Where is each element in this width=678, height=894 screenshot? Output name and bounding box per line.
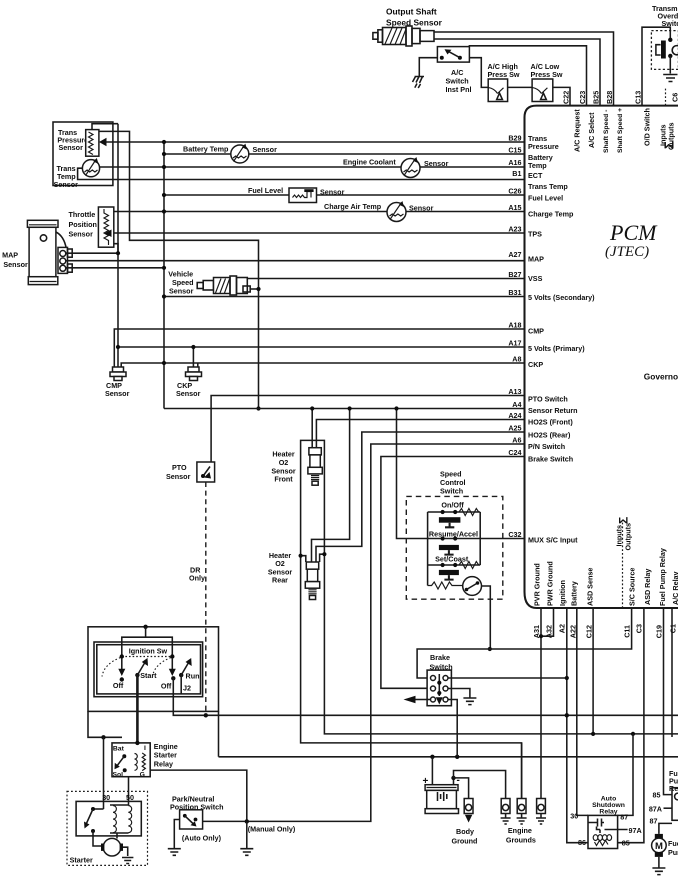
svg-text:Fuel Level: Fuel Level xyxy=(248,186,283,195)
wire: CKP 5V stub xyxy=(192,347,194,368)
speed control switch label xyxy=(440,470,466,496)
trans temp sensor xyxy=(82,158,99,177)
ground brake switch xyxy=(463,698,476,705)
engine starter relay label xyxy=(154,742,178,769)
ignition left off arrow xyxy=(118,658,125,682)
wire: O2 rear signal to sensor return xyxy=(312,409,350,563)
svg-text:97A: 97A xyxy=(629,826,642,835)
wire C12 ASD sense xyxy=(592,608,594,734)
svg-text:On/Off: On/Off xyxy=(441,501,464,510)
trans sensors outer box xyxy=(53,122,113,186)
svg-text:5 Volts (Primary): 5 Volts (Primary) xyxy=(528,344,585,353)
secondary bus from pressure sensor xyxy=(99,131,259,408)
PCM boundary xyxy=(525,106,678,608)
ASD relay contacts xyxy=(588,819,604,834)
svg-text:Run: Run xyxy=(186,672,200,681)
wire: brake row1 to ignition feed xyxy=(448,677,567,679)
CKP sensor xyxy=(186,367,202,381)
battery temp sensor xyxy=(231,144,249,163)
CMP sensor xyxy=(110,367,126,381)
run contact and arrow xyxy=(179,658,192,677)
engine starter relay labels xyxy=(113,745,147,779)
ASD relay coil xyxy=(593,835,611,846)
A/C switch label xyxy=(446,68,472,94)
wire: relay sol to starter 50 xyxy=(128,777,130,805)
wire: brake row2 to ground xyxy=(448,689,470,698)
svg-text:A/C Request: A/C Request xyxy=(573,109,582,152)
svg-text:C13: C13 xyxy=(634,91,643,104)
wire A17 5V primary xyxy=(118,346,525,348)
svg-text:PTO Switch: PTO Switch xyxy=(528,395,568,404)
PCM label xyxy=(605,220,658,260)
throttle position sensor label xyxy=(69,210,97,239)
PN junction dot xyxy=(245,819,249,823)
output shaft speed sensor label xyxy=(386,7,443,28)
svg-text:B1: B1 xyxy=(512,169,521,178)
set/coast switch and resistor xyxy=(428,562,481,580)
svg-text:Switch: Switch xyxy=(440,487,463,496)
wire: battery feed down left edge xyxy=(88,711,122,737)
O/D switch xyxy=(656,38,678,59)
wire: CKP signal stub xyxy=(197,363,199,368)
svg-text:B31: B31 xyxy=(508,288,521,297)
svg-text:Rear: Rear xyxy=(272,576,288,585)
svg-text:86: 86 xyxy=(578,838,586,847)
ignition switch inner box 2 xyxy=(97,645,201,694)
svg-text:A23: A23 xyxy=(508,225,521,234)
svg-text:A6: A6 xyxy=(512,436,521,445)
svg-text:A2: A2 xyxy=(558,624,567,633)
svg-text:87: 87 xyxy=(620,812,628,821)
PCM bottom signal names xyxy=(533,548,678,606)
wire A24 HO2S front xyxy=(316,420,525,448)
svg-text:Relay: Relay xyxy=(599,809,617,816)
fuel pump relay label xyxy=(669,769,678,793)
PCM bottom pin labels xyxy=(532,624,678,638)
svg-text:85: 85 xyxy=(622,839,630,848)
wire: battery negative riser xyxy=(453,778,455,785)
wire B27 VSS xyxy=(247,278,525,280)
A/C high press switch xyxy=(488,79,507,102)
starter relay feed dot xyxy=(135,741,139,745)
MAP sensor xyxy=(27,220,72,284)
wire: A/C switch to high press sw xyxy=(469,58,488,88)
speed control lamp switch xyxy=(463,577,482,596)
DR only label xyxy=(189,566,205,583)
engine coolant sensor xyxy=(401,157,420,178)
svg-text:Battery: Battery xyxy=(570,581,579,606)
wire A31 PWR ground xyxy=(540,608,542,799)
wire A27 MAP xyxy=(66,260,525,262)
svg-text:Σ: Σ xyxy=(662,141,677,149)
brake switch actuator bar xyxy=(436,674,443,705)
speed control left bus xyxy=(427,512,429,586)
svg-text:HO2S (Rear): HO2S (Rear) xyxy=(528,431,571,440)
svg-text:C15: C15 xyxy=(508,146,521,155)
svg-text:A25: A25 xyxy=(508,424,521,433)
fuel pump relay coil xyxy=(675,793,678,800)
A/C low press sw label xyxy=(531,62,563,79)
ASD relay 97A stub xyxy=(605,829,628,831)
A/C low press switch xyxy=(532,79,553,102)
junction dots left sensor area xyxy=(116,140,261,411)
svg-text:85: 85 xyxy=(653,791,661,800)
wire: relay G to PN ground junction xyxy=(150,770,247,821)
wire: VSS ground tab xyxy=(250,288,258,290)
wire C19 fuel pump relay xyxy=(664,608,673,795)
svg-text:Relay: Relay xyxy=(154,760,173,769)
wire A13 PTO switch xyxy=(211,396,525,463)
ignition switch inner box xyxy=(94,642,203,697)
wire C3 ASD relay control xyxy=(618,608,644,843)
svg-text:MAP: MAP xyxy=(2,251,18,260)
svg-text:B28: B28 xyxy=(605,91,614,104)
starter dashed box xyxy=(67,791,148,865)
ignition contacts dotted link xyxy=(122,656,173,658)
wire A16 ECT xyxy=(100,166,525,168)
battery feed dot xyxy=(101,735,105,739)
engine ground plug 2 xyxy=(517,799,527,825)
speed control right bus xyxy=(479,512,481,565)
wire: trans temp to B1 xyxy=(78,168,525,179)
DR only dashed wire xyxy=(205,482,207,715)
wire: speed control to brake switch junction xyxy=(482,586,491,649)
sensor return bus xyxy=(163,142,165,409)
starter internals xyxy=(84,805,132,846)
wire: low press sw to C22 xyxy=(553,87,570,105)
svg-text:Relay: Relay xyxy=(669,784,678,793)
wire: ignition run to accessory bus xyxy=(173,678,678,715)
svg-text:Sensor: Sensor xyxy=(320,188,345,197)
wire: MAP pin1 to TPS junction xyxy=(66,252,118,254)
svg-text:HO2S (Front): HO2S (Front) xyxy=(528,418,573,427)
brake switch label xyxy=(430,653,453,672)
transmission overdrive switch label xyxy=(652,4,678,28)
wire: PN switch left to ground xyxy=(174,820,179,849)
wire: O2 front signal to sensor return xyxy=(311,409,313,448)
resume/accel switch xyxy=(428,536,481,554)
heater O2 sensor rear label xyxy=(268,551,293,585)
starter ground xyxy=(122,852,133,864)
charge air temp label xyxy=(324,202,434,213)
svg-text:C24: C24 xyxy=(508,448,521,457)
svg-text:Sol: Sol xyxy=(113,772,124,779)
wire: FP relay 87 to fuel pump xyxy=(659,823,672,834)
charge air temp sensor xyxy=(387,201,406,222)
wire: battery positive riser xyxy=(431,757,433,785)
svg-text:M: M xyxy=(655,841,663,852)
svg-text:Inputs: Inputs xyxy=(615,525,624,547)
CMP sensor label xyxy=(105,381,130,398)
ground PN left xyxy=(168,849,181,856)
wire A8 CKP xyxy=(121,363,525,368)
PCM right signal names xyxy=(528,134,595,545)
fuel pump ground xyxy=(652,857,665,875)
svg-text:(Manual Only): (Manual Only) xyxy=(248,825,296,834)
svg-text:P/N Switch: P/N Switch xyxy=(528,442,565,451)
wire: sensor return branch to speed control xyxy=(397,409,428,539)
svg-text:5 Volts (Secondary): 5 Volts (Secondary) xyxy=(528,293,595,302)
bottom inputs/outputs labels xyxy=(615,517,633,551)
wire A23 TPS xyxy=(114,232,525,234)
engine ground plug 1 xyxy=(501,799,511,825)
svg-text:A/C Relay: A/C Relay xyxy=(671,571,678,605)
svg-text:Press Sw: Press Sw xyxy=(531,70,563,79)
svg-text:Sensor: Sensor xyxy=(176,389,201,398)
svg-text:Grounds: Grounds xyxy=(506,836,536,845)
park/neutral label xyxy=(170,795,224,812)
wire: PN switch right to junction xyxy=(203,820,247,822)
fuel level sender xyxy=(289,188,317,203)
svg-text:Pressure: Pressure xyxy=(528,142,559,151)
junction A31/A32 xyxy=(539,634,543,638)
ground O/D switch xyxy=(663,56,677,82)
wire: battery stud to ignition J2 bus xyxy=(219,711,678,756)
wire: TPS lower terminal xyxy=(114,244,118,253)
wire: C13 to O/D switch xyxy=(642,27,670,105)
svg-text:Sensor: Sensor xyxy=(59,143,84,152)
wire: start to starter relay xyxy=(136,675,139,743)
ignition feed dot xyxy=(143,625,147,629)
svg-text:Battery Temp: Battery Temp xyxy=(183,145,229,154)
wire: pressure sensor top to 5V bus elbow xyxy=(92,124,118,130)
svg-text:Start: Start xyxy=(140,671,157,680)
auto shutdown relay box xyxy=(588,815,618,848)
wire C11 S/C source xyxy=(417,608,631,678)
svg-text:C1: C1 xyxy=(669,624,678,633)
wire A18 CMP xyxy=(114,329,525,368)
park/neutral position switch xyxy=(180,810,203,829)
svg-text:Shaft Speed +: Shaft Speed + xyxy=(617,108,624,153)
ignition left dashed arc xyxy=(102,658,121,677)
bottom inputs/outputs dashed tick xyxy=(622,522,624,608)
wire A2 ignition xyxy=(567,608,588,843)
wire: PN junction ground xyxy=(246,821,248,848)
svg-text:Σ: Σ xyxy=(617,517,631,524)
svg-text:MUX S/C Input: MUX S/C Input xyxy=(528,536,578,545)
wire: battery to starter 30 xyxy=(103,737,105,809)
trans pressure sensor xyxy=(86,130,107,157)
brake switch pins xyxy=(431,676,449,703)
svg-text:PTO: PTO xyxy=(172,463,187,472)
svg-text:CKP: CKP xyxy=(528,360,543,369)
svg-text:Sensor: Sensor xyxy=(69,230,94,239)
brake switch box xyxy=(427,670,451,706)
wire: battery negative to body ground xyxy=(454,778,469,799)
battery temp label xyxy=(183,145,277,155)
svg-text:Fuel Level: Fuel Level xyxy=(528,194,563,203)
speed control dashed box xyxy=(406,496,503,599)
starter relay internals xyxy=(115,753,146,772)
svg-text:B25: B25 xyxy=(592,91,601,104)
trans pressure sensor label xyxy=(57,128,88,152)
svg-text:Inst Pnl: Inst Pnl xyxy=(446,85,472,94)
svg-text:MAP: MAP xyxy=(528,255,544,264)
svg-text:Body: Body xyxy=(456,827,474,836)
svg-text:Pump: Pump xyxy=(668,848,678,857)
PCM left pin labels xyxy=(508,134,521,540)
O2 heater loop and ASD feed bus xyxy=(301,440,678,798)
battery bus dots xyxy=(430,755,459,759)
svg-text:Sensor: Sensor xyxy=(169,287,194,296)
wire A22 battery xyxy=(577,608,588,815)
vehicle speed sensor label xyxy=(168,270,193,296)
svg-text:Set/Coast: Set/Coast xyxy=(435,555,469,564)
sensor return dots xyxy=(299,406,492,651)
svg-text:Brake: Brake xyxy=(430,653,450,662)
svg-text:(JTEC): (JTEC) xyxy=(605,244,649,260)
svg-text:C23: C23 xyxy=(578,91,587,104)
wire C26 fuel level xyxy=(164,194,525,196)
svg-text:Off: Off xyxy=(113,681,124,690)
svg-text:C22: C22 xyxy=(562,91,571,104)
wire: MAP pin3 to sensor return xyxy=(66,267,164,269)
fuel pump relay box xyxy=(672,788,678,821)
wire A4 sensor return xyxy=(164,408,525,410)
wire C1 A/C relay xyxy=(671,608,673,737)
svg-text:O/D Switch: O/D Switch xyxy=(643,108,652,146)
svg-text:Charge Temp: Charge Temp xyxy=(528,210,574,219)
CKP sensor label xyxy=(176,381,201,398)
heater O2 sensor front xyxy=(308,448,322,486)
speed control lamp resistor xyxy=(428,582,463,589)
PTO sensor xyxy=(197,462,215,482)
svg-text:Sensor: Sensor xyxy=(105,389,130,398)
svg-text:Front: Front xyxy=(274,475,293,484)
svg-text:Sensor Return: Sensor Return xyxy=(528,406,578,415)
wire: heater ground to engine ground 2 xyxy=(521,743,523,799)
svg-text:A24: A24 xyxy=(508,411,521,420)
ignition right off arrow xyxy=(169,658,176,681)
wire: brake row3 to battery bus xyxy=(448,700,457,757)
svg-text:Ignition: Ignition xyxy=(558,580,567,606)
wire: high to low press sw xyxy=(508,86,532,88)
svg-text:Starter: Starter xyxy=(154,751,177,760)
starter motor xyxy=(101,838,128,856)
svg-text:Engine Coolant: Engine Coolant xyxy=(343,158,396,167)
wire A15 charge temp xyxy=(113,211,525,213)
svg-text:B29: B29 xyxy=(508,134,521,143)
battery negative dot xyxy=(451,776,455,780)
svg-text:Ground: Ground xyxy=(452,837,478,846)
body ground label xyxy=(452,827,478,846)
svg-text:A27: A27 xyxy=(508,250,521,259)
svg-text:Fuel Pump Relay: Fuel Pump Relay xyxy=(658,548,667,606)
svg-text:Sensor: Sensor xyxy=(54,180,79,189)
svg-text:30: 30 xyxy=(570,812,578,821)
MAP sensor label xyxy=(2,251,28,270)
wire: brake row3 stop lamps arrow xyxy=(404,696,431,704)
wire C15 battery temp xyxy=(164,153,525,155)
fuel level label xyxy=(248,186,345,197)
fuel pump label xyxy=(668,839,678,857)
FP relay 87A stub xyxy=(664,807,673,809)
A/C switch inst pnl xyxy=(437,47,469,63)
svg-text:ASD Sense: ASD Sense xyxy=(586,568,595,606)
engine starter relay box xyxy=(112,743,150,777)
svg-text:Governor: Governor xyxy=(644,372,678,382)
svg-text:Off: Off xyxy=(161,682,172,691)
svg-text:Fuel: Fuel xyxy=(668,839,678,848)
svg-text:Engine: Engine xyxy=(508,826,532,835)
svg-text:C11: C11 xyxy=(623,625,632,638)
svg-text:Press Sw: Press Sw xyxy=(488,70,520,79)
C6 dashed tick xyxy=(665,88,667,106)
svg-text:Speed Sensor: Speed Sensor xyxy=(386,18,443,28)
svg-text:C6: C6 xyxy=(671,93,678,102)
svg-text:Throttle: Throttle xyxy=(69,210,96,219)
svg-text:87: 87 xyxy=(650,816,658,825)
wire A32 PWR ground xyxy=(541,608,554,636)
wire A25 HO2S rear xyxy=(316,432,525,562)
wire: battery negative to engine ground 1 xyxy=(454,771,506,799)
A/C high press sw label xyxy=(488,62,520,79)
svg-text:A15: A15 xyxy=(508,203,521,212)
svg-text:B27: B27 xyxy=(508,270,521,279)
svg-text:PVR Ground: PVR Ground xyxy=(533,563,542,606)
wire: A/C switch to ground xyxy=(419,58,437,76)
wire C24 brake switch xyxy=(381,457,525,689)
svg-text:C3: C3 xyxy=(635,624,644,633)
chassis ground A/C switch xyxy=(413,77,425,89)
svg-text:TPS: TPS xyxy=(528,230,542,239)
svg-text:Shaft Speed -: Shaft Speed - xyxy=(603,110,610,153)
top pin labels xyxy=(562,91,678,104)
trans temp sensor label xyxy=(54,164,79,189)
svg-text:A8: A8 xyxy=(512,355,521,364)
svg-text:Charge Air Temp: Charge Air Temp xyxy=(324,202,382,211)
svg-text:C26: C26 xyxy=(508,187,521,196)
run output stub xyxy=(180,675,182,694)
svg-text:(Auto Only): (Auto Only) xyxy=(182,834,222,843)
wire: A/C switch to C23 xyxy=(469,46,586,106)
top pin signal names xyxy=(573,108,677,153)
svg-text:Sensor: Sensor xyxy=(3,260,28,269)
svg-text:ASD Relay: ASD Relay xyxy=(643,569,652,605)
throttle position sensor xyxy=(98,207,113,247)
svg-text:A16: A16 xyxy=(508,158,521,167)
svg-text:C32: C32 xyxy=(508,530,521,539)
svg-text:C12: C12 xyxy=(585,625,594,638)
svg-text:A18: A18 xyxy=(508,321,521,330)
svg-text:Only: Only xyxy=(189,574,205,583)
svg-text:C19: C19 xyxy=(655,625,664,638)
wire A6 P/N switch xyxy=(247,444,525,821)
ignition contact dots xyxy=(120,654,175,658)
svg-text:ECT: ECT xyxy=(528,171,543,180)
engine ground plug 3 xyxy=(536,799,546,825)
ground PN right xyxy=(240,849,253,856)
svg-text:Brake Switch: Brake Switch xyxy=(528,455,573,464)
engine grounds label xyxy=(506,826,536,845)
junction dots ASD bus xyxy=(591,732,635,736)
5V primary bus xyxy=(117,124,119,368)
svg-text:PCM: PCM xyxy=(609,220,658,245)
brake feed dot xyxy=(565,676,569,680)
svg-text:Temp: Temp xyxy=(528,161,547,170)
starter inner box xyxy=(76,801,141,836)
wire: shaft speed + to B28 xyxy=(434,32,614,106)
svg-text:Sensor: Sensor xyxy=(424,159,449,168)
svg-text:Resume/Accel: Resume/Accel xyxy=(429,530,478,539)
svg-text:Outputs: Outputs xyxy=(624,523,633,551)
ignition right dashed arc xyxy=(153,658,172,677)
svg-text:A13: A13 xyxy=(508,387,521,396)
svg-text:Trans Temp: Trans Temp xyxy=(528,182,568,191)
ignition switch feed loop xyxy=(88,627,219,712)
svg-text:CMP: CMP xyxy=(528,327,544,336)
wire: shaft speed - to B25 xyxy=(434,39,600,106)
